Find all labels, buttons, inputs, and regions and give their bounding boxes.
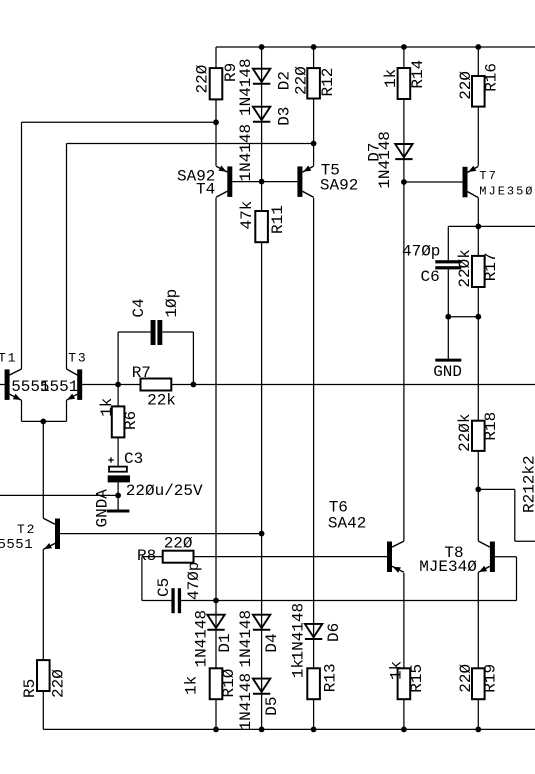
svg-text:1N4148: 1N4148 [290, 603, 308, 661]
svg-text:22Ø: 22Ø [50, 669, 68, 698]
node D5 bottom rail [259, 727, 265, 733]
node T7 base D7 [401, 179, 407, 185]
svg-text:22Ø: 22Ø [457, 71, 475, 100]
wire node to T8 collector [477, 489, 479, 541]
svg-text:D1: D1 [216, 633, 234, 652]
svg-text:22Øk: 22Øk [456, 413, 474, 451]
diode D1 [193, 610, 235, 668]
resistor R13 [290, 659, 340, 699]
node R17 bottom [475, 314, 481, 320]
svg-text:R11: R11 [269, 205, 287, 234]
wire R16 column to T7 emitter [477, 47, 479, 166]
wire node143 horizontal [67, 143, 314, 145]
svg-text:1N4148: 1N4148 [237, 673, 255, 731]
svg-text:1k: 1k [388, 661, 406, 680]
wire node122 horizontal [22, 121, 217, 123]
wire T8 collector loop top [478, 488, 515, 490]
node C5 D1 [213, 598, 219, 604]
diode D6 [290, 603, 344, 661]
capacitor C6 [402, 243, 461, 287]
svg-text:22Ø: 22Ø [457, 663, 475, 692]
diode D3 [237, 107, 293, 182]
svg-text:1N4148: 1N4148 [193, 610, 211, 668]
svg-text:T7: T7 [479, 169, 497, 183]
svg-text:R12: R12 [319, 68, 337, 97]
wire bottom rail [43, 728, 535, 730]
svg-text:C3: C3 [124, 450, 143, 468]
diode D5 [237, 673, 281, 731]
svg-text:1Øp: 1Øp [163, 289, 181, 318]
svg-text:1k: 1k [183, 676, 201, 695]
svg-text:SA92: SA92 [320, 176, 358, 194]
wire C6 to R17 bottom [448, 316, 478, 318]
resistor R19 [457, 663, 500, 699]
svg-text:D3: D3 [275, 107, 293, 126]
svg-text:D5: D5 [263, 696, 281, 715]
resistor R18 [456, 412, 500, 452]
node R10 bottom rail [213, 727, 219, 733]
svg-text:T3: T3 [68, 350, 87, 365]
svg-text:R212k2: R212k2 [520, 455, 535, 513]
transistor T5 [297, 162, 358, 198]
svg-text:R18: R18 [482, 412, 500, 441]
svg-text:47Øp: 47Øp [402, 243, 440, 261]
node C6 GND [445, 314, 451, 320]
diode D7 [366, 131, 413, 189]
resistor R6 [98, 398, 140, 438]
svg-text:T4: T4 [196, 181, 215, 199]
ground GND [433, 360, 462, 381]
wire R8 left corner vertical [141, 557, 143, 601]
svg-text:R19: R19 [482, 664, 500, 693]
transistor T1 [0, 351, 50, 401]
wire T1 collector riser [21, 122, 23, 369]
node T1 T3 emitters tail [40, 419, 46, 425]
svg-text:R5: R5 [21, 679, 39, 698]
wire R14 D7 column [403, 47, 405, 541]
svg-text:22Øu/25V: 22Øu/25V [126, 482, 203, 500]
node C3 GNDA [115, 493, 121, 499]
wire C5 left horizontal [142, 600, 172, 602]
svg-text:R14: R14 [409, 60, 427, 89]
wire diode chain column D2 D3 to base rail and R11 down to D4 D5 [261, 47, 263, 729]
wire T8 collector loop vertical [514, 489, 516, 541]
svg-text:5551: 5551 [40, 378, 78, 396]
node R9 bottom T1 collector [213, 119, 219, 125]
wire R6 to C3 top plate [117, 385, 119, 467]
svg-text:1N4148: 1N4148 [237, 124, 255, 182]
svg-text:22k: 22k [147, 392, 176, 410]
capacitor C5 [155, 562, 203, 614]
wire feedback rail [82, 384, 535, 386]
svg-text:47k: 47k [238, 201, 256, 230]
wire D1 anode run and through R10 to bottom rail [215, 601, 217, 730]
svg-text:1k: 1k [290, 659, 308, 678]
transistor T3 [40, 350, 88, 400]
node D2 top on rail [259, 44, 265, 50]
wire collector loop to right edge [515, 540, 535, 542]
svg-text:T2: T2 [17, 522, 36, 537]
wire T7 collector node to right edge [448, 225, 535, 227]
transistor T6 [328, 499, 404, 573]
transistor T4 [177, 166, 232, 199]
wire C5 to T8 base loop [181, 600, 516, 602]
wire GNDA rail from left edge [0, 494, 118, 496]
transistor T2 [0, 518, 60, 553]
svg-text:R17: R17 [482, 252, 500, 281]
svg-text:T1: T1 [0, 351, 17, 366]
svg-text:R16: R16 [483, 63, 501, 92]
wire C6 bottom to GND node [447, 269, 449, 358]
wire T4 collector down long run [215, 198, 217, 601]
node T2 base [259, 531, 265, 537]
svg-text:C4: C4 [130, 298, 148, 317]
node T3 base R6 R7 [115, 382, 121, 388]
node R7 C4 feedback [191, 382, 197, 388]
wire power rail top [216, 46, 535, 48]
resistor R15 [388, 661, 426, 699]
transistor T8 [419, 541, 495, 576]
svg-text:1k: 1k [382, 69, 400, 88]
svg-text:MJE34Ø: MJE34Ø [419, 558, 477, 576]
svg-text:MJE35Ø: MJE35Ø [479, 184, 534, 198]
resistor R17 [456, 249, 500, 287]
svg-text:D7: D7 [366, 143, 384, 162]
resistor R10 [183, 668, 239, 699]
wire tail node to T2 collector [42, 421, 44, 518]
wire C4 branch left vertical [117, 332, 119, 385]
wire T2 emitter to R5 to bottom rail corner [42, 549, 44, 729]
wire T8 emitter to R19 to bottom rail [477, 572, 479, 729]
wire C6 top vertical [447, 226, 449, 260]
wire T1 base stub [0, 384, 5, 386]
svg-text:R1Ø: R1Ø [220, 668, 238, 697]
wire C4 branch right vertical [192, 332, 194, 385]
node R15 bottom rail [401, 727, 407, 733]
svg-text:C6: C6 [421, 268, 440, 286]
svg-text:D6: D6 [325, 623, 343, 642]
svg-text:R13: R13 [322, 663, 340, 692]
resistor R21 name and value label (body off-page right) [520, 455, 535, 513]
svg-text:1k: 1k [98, 398, 116, 417]
diode D4 [237, 610, 281, 668]
svg-text:22Ø: 22Ø [164, 535, 193, 553]
svg-text:SA42: SA42 [328, 515, 366, 533]
node R18 bottom T8 collector [475, 487, 481, 493]
wire T1 emitter down [21, 400, 23, 421]
wire T2 base [60, 533, 262, 535]
svg-text:D4: D4 [263, 633, 281, 652]
node R13 bottom rail [311, 727, 317, 733]
resistor R9 [193, 63, 240, 100]
svg-text:GNDA: GNDA [94, 489, 112, 528]
wire T5 collector down to D6 R13 bottom rail [313, 198, 315, 730]
ground GNDA [94, 489, 130, 528]
wire R9 bottom to node at y122 [215, 99, 217, 122]
wire T1 T3 emitter join [22, 420, 67, 422]
resistor R7 [132, 364, 176, 410]
svg-text:22Ø: 22Ø [193, 64, 211, 93]
resistor R14 [382, 60, 427, 99]
svg-text:R6: R6 [122, 411, 140, 430]
wire C4 right horizontal [162, 331, 193, 333]
wire R12 column top [313, 47, 315, 166]
resistor R12 [293, 66, 337, 99]
capacitor C4 [130, 289, 181, 345]
wire T3 collector riser [66, 144, 68, 370]
wire T8 base [495, 556, 517, 558]
svg-text:1N4148: 1N4148 [237, 610, 255, 668]
wire T4 T5 base rail [232, 181, 297, 183]
node R19 bottom rail [475, 727, 481, 733]
svg-text:22Ø: 22Ø [293, 66, 311, 95]
wire T7 base [404, 181, 463, 183]
node R12 top on rail [311, 44, 317, 50]
svg-text:C5: C5 [155, 578, 173, 597]
resistor R5 [21, 660, 68, 698]
wire C3 bottom plate to GNDA [117, 482, 119, 509]
wire T8 base loop vertical [516, 557, 518, 601]
wire T7 collector through R17 R18 to node [477, 198, 479, 490]
resistor R11 [238, 201, 287, 243]
node T4 T5 base diode chain [259, 179, 265, 185]
resistor R8 [137, 535, 194, 566]
svg-text:47Øp: 47Øp [185, 562, 203, 600]
svg-text:R7: R7 [132, 364, 151, 382]
wire C4 left horizontal [118, 331, 151, 333]
node R14 top on rail [401, 44, 407, 50]
capacitor C3 electrolytic [108, 450, 203, 500]
node T7 collector R17 [475, 224, 481, 230]
node R16 top on rail [475, 44, 481, 50]
resistor R16 [457, 63, 501, 107]
transistor T7 [463, 166, 535, 199]
svg-text:GND: GND [433, 363, 462, 381]
svg-text:5551: 5551 [0, 537, 33, 553]
svg-text:D2: D2 [275, 71, 293, 90]
wire node122 to T4 emitter [215, 122, 217, 166]
node R12 bottom T3 collector [311, 141, 317, 147]
wire T3 emitter down [66, 400, 68, 421]
svg-text:R8: R8 [137, 547, 156, 565]
wire top rail with left corner down to R9 [215, 47, 217, 68]
wire R8 to T6 base [142, 556, 387, 558]
wire T6 emitter to R15 to bottom rail [403, 573, 405, 730]
diode D2 [237, 58, 293, 116]
svg-text:R15: R15 [408, 664, 426, 693]
